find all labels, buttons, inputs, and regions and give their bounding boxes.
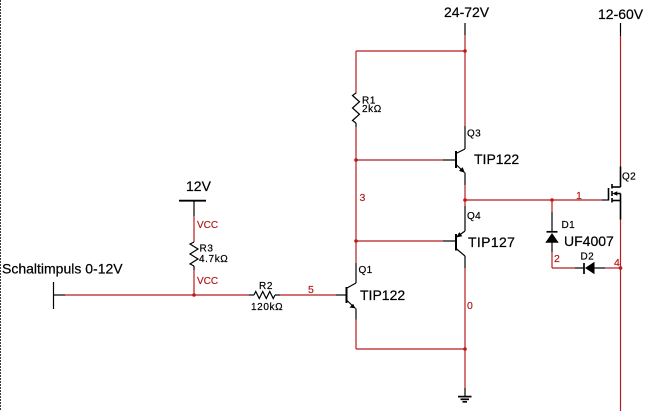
wire right rail upper <box>620 36 622 167</box>
resistor R2 <box>251 281 283 313</box>
svg-text:Q1: Q1 <box>359 265 373 276</box>
svg-text:12V: 12V <box>186 178 212 194</box>
svg-text:24-72V: 24-72V <box>444 4 490 20</box>
wire left rail mid segment (net 3) <box>355 127 357 263</box>
transistor Q4 TIP127 <box>455 206 515 268</box>
wire net2 horizontal to D2 <box>552 267 584 269</box>
node 0 label <box>467 300 473 312</box>
node junction top rail <box>463 49 467 53</box>
node junction gate wire <box>463 198 467 202</box>
net VCC label upper <box>197 220 218 231</box>
node junction R3-input <box>192 293 196 297</box>
input label Schaltimpuls 0-12V <box>2 261 123 277</box>
svg-text:Q2: Q2 <box>622 172 636 183</box>
svg-text:R3: R3 <box>200 244 214 255</box>
svg-text:Q3: Q3 <box>467 129 481 140</box>
svg-text:4.7kΩ: 4.7kΩ <box>199 254 228 265</box>
wire gate (net 1) <box>465 199 602 201</box>
svg-text:12-60V: 12-60V <box>598 6 644 22</box>
power label 12V <box>186 178 212 194</box>
svg-text:1: 1 <box>576 190 582 202</box>
wire D2 to source rail (net 4) <box>605 267 621 269</box>
page edge dashed border <box>0 0 2 411</box>
node 2 label <box>554 253 560 265</box>
power label 24-72V <box>444 4 490 35</box>
wire left rail upper segment <box>355 51 357 94</box>
node 1 label <box>576 190 582 202</box>
wire source rail down to edge <box>620 220 622 411</box>
wire R2 to Q1 base (net 5) <box>280 294 336 296</box>
node junction D1 tap <box>550 198 554 202</box>
svg-text:Schaltimpuls 0-12V: Schaltimpuls 0-12V <box>2 261 123 277</box>
node junction source rail <box>619 266 623 270</box>
node junction rail-Q4 base <box>354 239 358 243</box>
svg-text:0: 0 <box>467 300 473 312</box>
svg-text:D2: D2 <box>581 252 595 263</box>
svg-text:2: 2 <box>554 253 560 265</box>
node 3 label <box>360 192 366 204</box>
supply bar 12V <box>179 201 206 216</box>
ground <box>458 388 472 402</box>
diode D2 <box>581 252 606 275</box>
node junction R1-Q3 base <box>354 158 358 162</box>
mosfet Q2 <box>602 167 636 220</box>
wire top rail horizontal <box>356 50 465 52</box>
wire Q4 collector down to ground rail <box>464 268 466 389</box>
svg-text:UF4007: UF4007 <box>564 233 614 249</box>
svg-text:TIP127: TIP127 <box>468 234 515 250</box>
input terminal <box>54 282 66 309</box>
wire Q3 emitter to gate node <box>464 185 466 206</box>
svg-text:R2: R2 <box>259 281 273 292</box>
wire D1 anode branch upper <box>551 200 553 212</box>
svg-text:TIP122: TIP122 <box>360 287 405 303</box>
transistor Q3 TIP122 <box>455 126 519 185</box>
transistor Q1 TIP122 <box>336 263 405 320</box>
svg-text:VCC: VCC <box>197 276 218 287</box>
svg-text:VCC: VCC <box>197 220 218 231</box>
svg-text:3: 3 <box>360 192 366 204</box>
net VCC label lower <box>197 276 218 287</box>
wire Q3 base <box>356 159 455 161</box>
node junction emitter bottom wire <box>463 347 467 351</box>
resistor R3 <box>190 242 228 270</box>
svg-text:TIP122: TIP122 <box>474 151 519 167</box>
svg-text:Q4: Q4 <box>467 211 481 222</box>
svg-text:120kΩ: 120kΩ <box>251 302 283 313</box>
wire mid rail upper <box>464 35 466 126</box>
wire D1 to net 2 <box>551 252 553 268</box>
svg-text:2kΩ: 2kΩ <box>362 104 382 115</box>
wire Q4 base <box>356 240 455 242</box>
svg-text:5: 5 <box>308 284 314 296</box>
wire Q1 emitter down <box>355 320 357 350</box>
wire R3 to input line <box>193 270 195 295</box>
svg-text:D1: D1 <box>562 220 576 231</box>
diode D1 UF4007 <box>545 212 614 252</box>
resistor R1 <box>353 93 382 127</box>
wire 12V to R3 <box>193 216 195 242</box>
wire input to R2 <box>65 294 254 296</box>
node 5 label <box>308 284 314 296</box>
power label 12-60V <box>598 6 644 36</box>
node 4 label <box>614 257 620 269</box>
wire bottom horizontal to ground rail <box>356 348 465 350</box>
